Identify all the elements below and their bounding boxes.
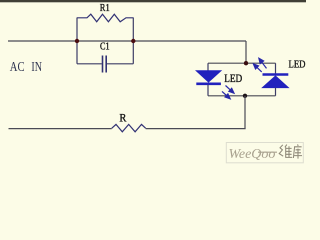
svg-text:WeeQoo: WeeQoo [229, 147, 276, 162]
emission arrows of left LED [222, 86, 234, 99]
wire: bottom return wire left segment [9, 128, 112, 130]
node: bridge top feed dot [244, 61, 248, 65]
wire: AC top lead from left edge to left node [8, 40, 77, 42]
wire: main wire across RC network [77, 40, 133, 42]
watermark CJK 维 [279, 145, 292, 158]
svg-text:LED: LED [289, 59, 306, 71]
svg-text:R1: R1 [100, 2, 110, 14]
wire: left vertical of R1/C1 loop [76, 18, 78, 64]
node: left junction dot [75, 39, 79, 43]
node: bridge bottom output dot [243, 94, 247, 98]
svg-text:R: R [119, 111, 126, 125]
watermark CJK 库 [293, 144, 302, 158]
emission arrows of right LED [253, 58, 266, 72]
wire: feed corner down to LED bridge top rail [245, 41, 247, 63]
wire: top wire between RC network and LED feed corner [133, 40, 246, 42]
LED D1 (left, cathode down) [196, 63, 221, 96]
capacitor C1 [77, 56, 133, 73]
svg-text:LED: LED [224, 71, 242, 85]
wire: bottom return wire right segment [146, 128, 246, 130]
wire: LED bridge bottom rail [208, 95, 276, 97]
top page border bar [0, 0, 306, 2]
watermark strike through oo [258, 151, 277, 153]
node: right junction dot [131, 39, 135, 43]
wire: right vertical of R1/C1 loop [132, 18, 134, 64]
LED D2 (right, cathode up) [263, 63, 289, 96]
wire: output down from bridge to bottom corner [244, 96, 246, 129]
resistor R1 [77, 14, 133, 22]
svg-text:C1: C1 [100, 42, 110, 53]
svg-text:AC: AC [10, 59, 25, 74]
wire: LED bridge top rail [208, 62, 276, 64]
resistor R [112, 124, 146, 131]
watermark box [226, 143, 303, 163]
svg-text:IN: IN [31, 59, 42, 74]
